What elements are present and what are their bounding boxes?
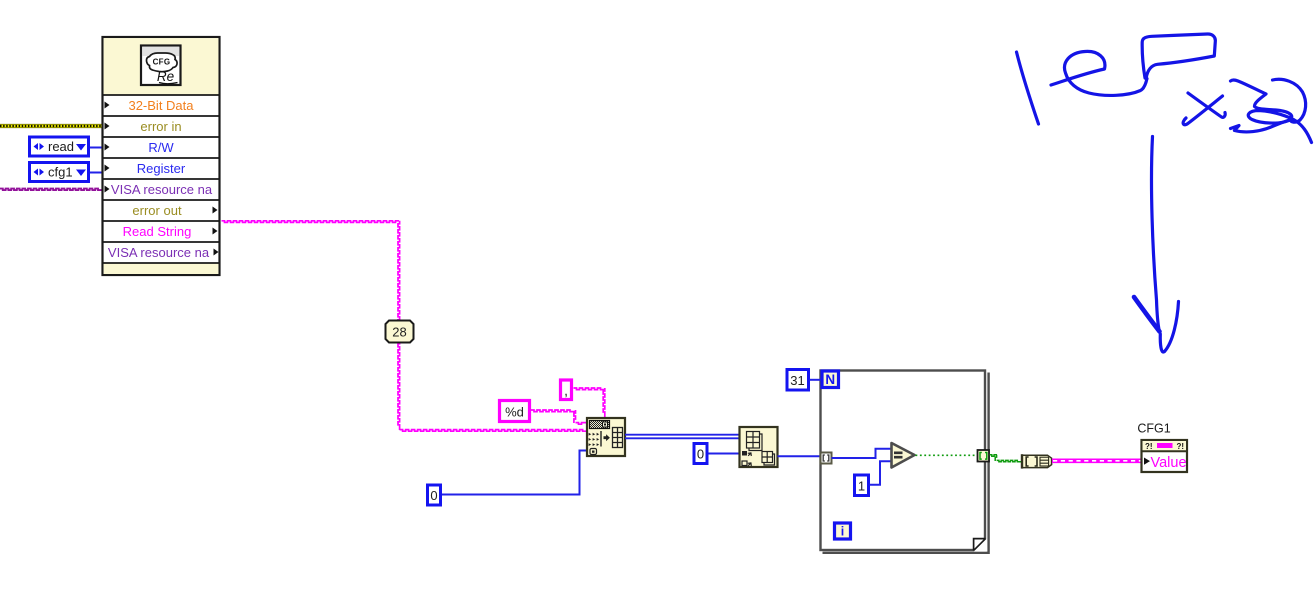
svg-text:?!: ?! <box>1145 442 1153 451</box>
function Boolean Array To Number <box>1022 454 1052 468</box>
enum constant read <box>30 137 89 156</box>
svg-text:%d: %d <box>505 405 524 420</box>
tunnel output (auto-index, boolean array) <box>978 450 990 462</box>
wire delimiter to node <box>574 388 605 417</box>
numeric constant 0 (column index) <box>694 444 707 464</box>
loop count terminal N <box>822 371 839 388</box>
terminal row error out <box>132 203 217 218</box>
svg-text:?!: ?! <box>1177 442 1185 451</box>
enum constant cfg1 <box>30 163 89 182</box>
wire cfg1 to Register <box>90 172 102 174</box>
terminal row VISA resource name out <box>108 245 219 260</box>
svg-text:i: i <box>841 525 844 539</box>
svg-text:0: 0 <box>430 488 437 503</box>
wire error in (yellow/black dashed error cluster wire) <box>0 124 102 128</box>
svg-text:error out: error out <box>132 203 182 218</box>
tunnel input (auto-index) <box>821 453 832 464</box>
wire number to Value indicator (pink dashed) <box>1052 458 1142 463</box>
svg-text:31: 31 <box>790 373 804 388</box>
VI icon CFG Re <box>141 46 181 86</box>
numeric constant 0 (row index) <box>428 485 441 505</box>
terminal row 32-Bit Data <box>105 98 195 113</box>
pen annotation stroke backslash <box>1017 34 1312 352</box>
terminal row Read String <box>123 224 218 239</box>
for loop frame <box>821 371 989 553</box>
pen annotation underline squiggle <box>1231 120 1293 132</box>
svg-text:0: 0 <box>697 447 704 462</box>
wire VISA resource name in (purple wavy) <box>0 189 102 191</box>
svg-text:Register: Register <box>137 161 186 176</box>
pen annotation digit 2 curve <box>1273 79 1306 122</box>
svg-text:32-Bit Data: 32-Bit Data <box>128 98 194 113</box>
wire 0 to scan node <box>442 451 587 495</box>
svg-text:N: N <box>825 372 835 387</box>
function Equal? <box>892 443 915 468</box>
function Index Array <box>740 427 778 467</box>
svg-text:read: read <box>48 139 74 154</box>
svg-text:VISA resource na: VISA resource na <box>108 245 210 260</box>
string constant %d <box>500 401 530 422</box>
svg-text:VISA resource na: VISA resource na <box>111 182 213 197</box>
pen annotation arrow head right barb <box>1160 302 1178 353</box>
loop iteration terminal i <box>835 523 851 539</box>
terminal row VISA resource name in <box>105 182 213 197</box>
svg-text:Re: Re <box>157 69 174 84</box>
wire read to R/W <box>90 147 102 149</box>
pen annotation letter e <box>1051 51 1147 95</box>
svg-text:R/W: R/W <box>148 140 174 155</box>
pen annotation arrow tail <box>1151 137 1159 332</box>
VISA Configuration Read express VI node <box>103 37 220 275</box>
svg-text:28: 28 <box>392 325 406 340</box>
wire 0 to index array <box>709 453 740 455</box>
svg-text:Read String: Read String <box>123 224 192 239</box>
svg-text:CFG: CFG <box>153 58 171 67</box>
pen annotation x stroke 2 <box>1183 96 1222 125</box>
wire tunnel to equals <box>832 449 892 458</box>
string constant comma delimiter <box>561 380 572 400</box>
wire boolean array to converter (green wavy) <box>990 455 1022 462</box>
svg-text:error in: error in <box>140 119 181 134</box>
wire 1 to equals <box>870 461 892 485</box>
svg-text:CFG1: CFG1 <box>1137 422 1170 436</box>
wire Read String (pink wavy string wire) <box>222 221 587 431</box>
function Spreadsheet String To Array <box>587 418 625 456</box>
wire equals to output tunnel (green dotted boolean) <box>916 454 978 456</box>
pen annotation flag shape <box>1142 34 1215 78</box>
pen annotation arrow head left barb <box>1134 297 1160 332</box>
pen annotation x stroke 1 <box>1188 93 1225 117</box>
svg-text:1: 1 <box>858 479 865 494</box>
svg-text:,: , <box>564 385 567 399</box>
pen annotation digit 3 swirl <box>1231 80 1312 142</box>
wire %d to format input <box>531 410 587 424</box>
wire 2D array (blue double) scan to index <box>625 435 739 439</box>
numeric constant 31 <box>787 370 809 391</box>
indicator CFG1 Value <box>1142 440 1188 472</box>
terminal row R/W <box>105 140 175 155</box>
wire 31 to N <box>810 379 822 381</box>
terminal row Register <box>105 161 186 176</box>
numeric constant 1 <box>855 475 869 496</box>
wire index array to for loop <box>778 455 821 457</box>
terminal row error in <box>105 119 182 134</box>
wire label 28 <box>386 321 414 343</box>
svg-text:cfg1: cfg1 <box>48 165 73 180</box>
svg-text:Value: Value <box>1151 455 1187 471</box>
